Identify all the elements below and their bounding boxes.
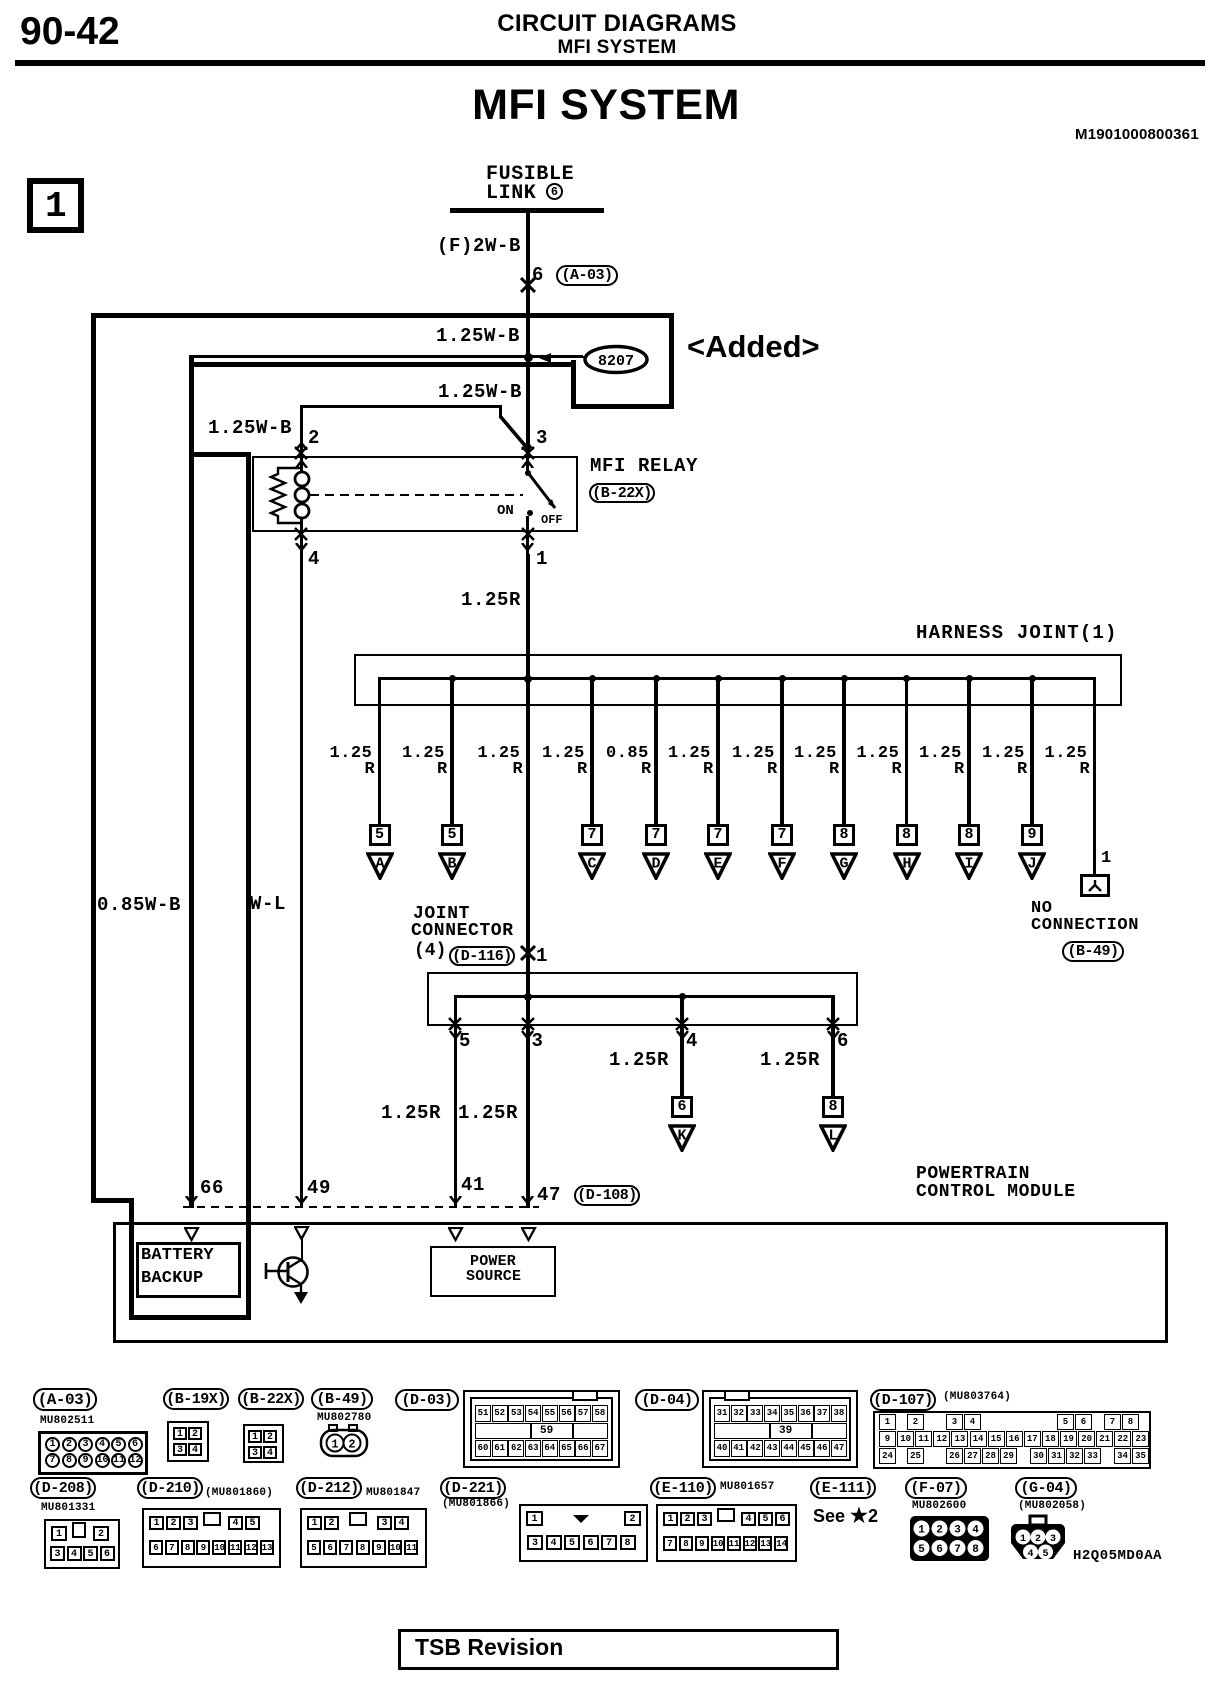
svg-text:F: F	[777, 855, 786, 872]
connector tag A-03 pinout	[33, 1388, 97, 1411]
terminal square 7 (D)	[645, 824, 667, 846]
added wire vertical along relay to PCM	[246, 452, 251, 1320]
wire label 1.25R pin47	[458, 1104, 518, 1124]
MFI relay box B-22X	[252, 456, 578, 532]
header subtitle MFI SYSTEM	[557, 38, 676, 58]
joint bus dot drop4	[679, 993, 686, 1000]
wire pin2 horizontal	[300, 405, 502, 408]
joint drop pin5 wire	[454, 995, 457, 1208]
harness joint bus bar	[378, 677, 1096, 680]
no connection pin 1 label	[1101, 850, 1112, 868]
svg-text:2: 2	[936, 1525, 943, 1537]
added wire branch horizontal	[189, 452, 251, 457]
connector G-04 drawing	[1006, 1514, 1070, 1564]
triangle terminal D	[642, 852, 670, 880]
pcm box	[113, 1222, 1168, 1343]
svg-text:1: 1	[1020, 1534, 1026, 1545]
wire pin 4 down to PCM pin 49	[300, 554, 304, 1206]
connector B-22X drawing	[243, 1424, 284, 1463]
joint connector bottom break pin 6	[826, 1017, 840, 1031]
connector D-107 drawing	[873, 1411, 1151, 1469]
relay coil	[300, 458, 303, 472]
terminal square 7 (F)	[771, 824, 793, 846]
joint drop pin6 wire	[831, 995, 834, 1096]
wire label (F)2W-B	[437, 237, 521, 257]
triangle terminal K	[668, 1124, 696, 1152]
connector tag D-107 pinout	[870, 1389, 936, 1411]
svg-text:5: 5	[1042, 1549, 1048, 1560]
triangle terminal C	[578, 852, 606, 880]
pin 47 arrow	[521, 1196, 534, 1204]
wire size label 1.25R at x1032	[982, 745, 1025, 763]
triangle terminal F	[768, 852, 796, 880]
wire size label 1.25R at x906	[857, 745, 900, 763]
pin 1 break mark	[526, 532, 529, 554]
junction node 8207 splice dot	[524, 353, 533, 362]
svg-text:E: E	[713, 855, 722, 872]
wire size label 1.25R at x452	[402, 745, 445, 763]
label JOINT CONNECTOR (4)	[413, 905, 470, 924]
pin 3 label	[536, 429, 548, 449]
wire size label 1.25R at x969	[919, 745, 962, 763]
wire size label 1.25R at x782	[732, 745, 775, 763]
triangle terminal I	[955, 852, 983, 880]
label H2Q05MD0AA	[1073, 1549, 1162, 1564]
terminal square 5 (B)	[441, 824, 463, 846]
joint connector bottom break pin 5	[448, 1017, 462, 1031]
label POWERTRAIN CONTROL MODULE	[916, 1165, 1030, 1184]
svg-text:5: 5	[918, 1544, 925, 1556]
connector tag E-111 pinout	[810, 1477, 876, 1499]
connector D-208 drawing	[44, 1519, 120, 1569]
pin 49 arrow	[295, 1196, 308, 1204]
connector tag A-03	[556, 265, 618, 286]
header title CIRCUIT DIAGRAMS	[497, 12, 736, 37]
label HARNESS JOINT(1)	[916, 624, 1118, 644]
connector tag D-212 pinout	[296, 1477, 362, 1499]
svg-text:C: C	[587, 855, 596, 872]
terminal square 8 (H)	[896, 824, 918, 846]
svg-text:G: G	[839, 855, 848, 872]
pin 2 break mark	[295, 442, 308, 450]
TSB Revision box	[398, 1629, 839, 1670]
connector tag D-221 pinout	[440, 1477, 506, 1499]
connector tag E-110 pinout	[650, 1477, 716, 1499]
wire thin splice line	[191, 355, 583, 358]
wire size label 1.25R at x844	[794, 745, 837, 763]
pin 66 arrow	[185, 1196, 198, 1204]
harness drop wire 9	[967, 677, 970, 824]
terminal square 8 (L)	[822, 1096, 844, 1118]
connector A-03 pinout drawing	[38, 1431, 148, 1475]
fusible link 6 label	[486, 165, 574, 186]
label MU802780	[317, 1413, 371, 1424]
joint connector box	[427, 972, 858, 1026]
harness drop wire 8	[905, 677, 908, 824]
label MU802058	[1018, 1501, 1086, 1512]
wire pin 1 inside relay	[526, 516, 529, 532]
wire size label 0.85R at x656	[606, 745, 649, 763]
joint connector bottom break pin 4	[675, 1017, 689, 1031]
svg-text:J: J	[1027, 855, 1036, 872]
pcm pin labels	[200, 1179, 224, 1199]
label MFI RELAY	[590, 457, 698, 477]
harness drop wire 10	[1030, 677, 1033, 824]
svg-text:A: A	[375, 855, 384, 872]
connector tag D-116	[449, 946, 515, 966]
arrow to splice from 8207 balloon	[538, 352, 552, 364]
power source box	[430, 1246, 556, 1297]
connector tag D-04 pinout	[635, 1389, 699, 1411]
svg-text:I: I	[964, 855, 973, 872]
terminal square 5 (A)	[369, 824, 391, 846]
connector tag G-04 pinout	[1015, 1477, 1077, 1499]
harness joint box	[354, 654, 1122, 706]
label MU801331	[41, 1503, 95, 1514]
connector D-221 drawing	[519, 1504, 648, 1562]
triangle terminal G	[830, 852, 858, 880]
connector D-03 drawing	[463, 1390, 620, 1468]
svg-text:3: 3	[954, 1525, 961, 1537]
relay switch contact from pin 3	[526, 458, 529, 472]
document number M1901000800361	[1075, 127, 1199, 143]
relay switch ON label	[497, 504, 514, 519]
joint drop pin4 wire	[680, 995, 683, 1096]
wire label 1.25R	[461, 591, 521, 611]
wire size label 1.25R at x592	[542, 745, 585, 763]
triangle terminal E	[704, 852, 732, 880]
no connection terminal	[1080, 874, 1110, 897]
terminal square 6 (K)	[671, 1096, 693, 1118]
battery backup box	[136, 1242, 241, 1298]
connector tag D-210 pinout	[137, 1477, 203, 1499]
pin 3 break mark	[521, 442, 534, 450]
connector E-110 drawing	[656, 1504, 797, 1562]
harness drop wire 2	[450, 677, 453, 824]
svg-text:2: 2	[1035, 1534, 1041, 1545]
connector B-19X drawing	[167, 1421, 209, 1462]
main title MFI SYSTEM	[472, 83, 740, 128]
svg-text:8207: 8207	[598, 353, 634, 370]
wire size label 1.25R at x1094	[1045, 745, 1088, 763]
main wire break at joint connector	[520, 945, 536, 961]
relay switch OFF label	[541, 514, 563, 526]
wire size label 1.25R at x718	[668, 745, 711, 763]
connector tag B-49 pinout	[311, 1388, 373, 1410]
svg-text:8: 8	[972, 1544, 979, 1556]
triangle terminal A	[366, 852, 394, 880]
svg-text:6: 6	[936, 1544, 943, 1556]
added wire left vertical to PCM pin 66	[189, 355, 194, 1208]
label Added	[687, 331, 820, 363]
pin 41 arrow	[449, 1196, 462, 1204]
balloon 8207	[582, 344, 650, 375]
wire (F)2W-B from fusible link	[526, 213, 531, 456]
label MU801847	[366, 1488, 420, 1499]
added wire horizontal through junction	[191, 362, 576, 367]
added wire jog horizontal	[91, 1198, 134, 1203]
connector tag F-07 pinout	[905, 1477, 967, 1499]
svg-text:1: 1	[918, 1525, 925, 1537]
svg-text:2: 2	[348, 1438, 355, 1452]
label NO CONNECTION	[1031, 900, 1053, 918]
wire label 1.25R drop4	[609, 1051, 669, 1071]
added wire short vertical	[571, 360, 576, 409]
wire label 1.25W-B left	[208, 419, 292, 439]
connector tag B-22X	[589, 483, 655, 503]
added wire lower right horizontal	[571, 404, 674, 409]
harness drop wire 6	[780, 677, 783, 824]
harness drop wire 4	[654, 677, 657, 824]
added wire outer left vertical	[91, 313, 96, 1203]
figure number 1 box	[27, 178, 84, 233]
joint connector bottom break pin 3	[521, 1017, 535, 1031]
added wire bottom horizontal under battery backup	[129, 1315, 251, 1320]
added wire thick right vertical	[669, 313, 674, 409]
wire diagonal into pin 3	[497, 414, 531, 452]
connector D-212 drawing	[300, 1508, 427, 1568]
connector tag B-49 no connection	[1062, 941, 1124, 962]
label See star 2	[813, 1506, 878, 1527]
svg-text:K: K	[677, 1127, 686, 1144]
harness drop wire 1	[378, 677, 381, 824]
svg-text:D: D	[651, 855, 660, 872]
relay dashed link	[310, 494, 523, 496]
transistor in pcm	[301, 1236, 304, 1262]
wire label 1.25W-B upper	[436, 327, 520, 347]
pin 1 label joint connector	[536, 947, 548, 967]
harness drop wire 3	[590, 677, 593, 824]
relay resistor parallel	[266, 466, 306, 526]
terminal square 8 (I)	[958, 824, 980, 846]
connector tag B-19X pinout	[163, 1388, 229, 1410]
wire label 1.25W-B middle	[438, 383, 522, 403]
joint bus dot main	[524, 993, 532, 1001]
pin 2 label	[308, 429, 320, 449]
wire label 1.25R drop6	[760, 1051, 820, 1071]
connector D-04 drawing	[702, 1390, 858, 1468]
harness drop wire 11	[1093, 677, 1096, 874]
joint connector bus bar	[455, 995, 834, 998]
wire pin2 vertical	[300, 405, 303, 456]
svg-text:1: 1	[331, 1438, 338, 1452]
header rule	[15, 60, 1205, 66]
svg-text:4: 4	[1027, 1549, 1033, 1560]
label MU802511	[40, 1416, 94, 1427]
label MU803764	[943, 1392, 1011, 1403]
label MU801860	[205, 1488, 273, 1499]
triangle terminal L	[819, 1124, 847, 1152]
label MU801657	[720, 1482, 774, 1493]
terminal square 9 (J)	[1021, 824, 1043, 846]
connector B-49 drawing	[319, 1424, 371, 1460]
terminal square 8 (G)	[833, 824, 855, 846]
triangle terminal J	[1018, 852, 1046, 880]
connector tag D-03 pinout	[395, 1389, 459, 1411]
relay switch blade	[526, 471, 560, 513]
triangle terminal B	[438, 852, 466, 880]
terminal square 7 (E)	[707, 824, 729, 846]
connector break 6 A-03	[520, 277, 536, 293]
connector F-07 drawing	[909, 1515, 991, 1563]
svg-text:4: 4	[972, 1525, 979, 1537]
pcm connector dashed line	[183, 1206, 539, 1208]
svg-text:L: L	[828, 1127, 837, 1144]
pin 4 break mark	[300, 532, 303, 554]
added wire vertical left of battery backup	[129, 1198, 134, 1320]
relay switch ON dot	[527, 510, 533, 516]
connector tag D-108	[574, 1185, 640, 1206]
wire label W-L	[250, 895, 286, 915]
bus junction dot main wire	[524, 675, 532, 683]
label MU801866	[442, 1499, 510, 1510]
page number 90-42	[20, 12, 120, 53]
wire main vertical to relay pin 3	[526, 355, 530, 456]
connector D-210 drawing	[142, 1508, 281, 1568]
triangle terminal H	[893, 852, 921, 880]
connector tag B-22X pinout	[238, 1388, 304, 1410]
terminal square 7 (C)	[581, 824, 603, 846]
wire jog vertical	[499, 405, 502, 418]
harness drop wire 5	[716, 677, 719, 824]
wire size label 1.25R at x379	[330, 745, 373, 763]
wire label 0.85W-B left	[97, 896, 181, 916]
wire pin 1 down main	[526, 554, 530, 1208]
svg-text:B: B	[447, 855, 456, 872]
added wire thick top horizontal	[91, 313, 674, 318]
connector tag D-208 pinout	[30, 1477, 96, 1499]
harness drop wire 7	[842, 677, 845, 824]
svg-text:7: 7	[954, 1544, 961, 1556]
wire size label 1.25R at x527	[478, 745, 521, 763]
svg-text:H: H	[902, 855, 911, 872]
svg-text:3: 3	[1050, 1534, 1056, 1545]
fusible link bar	[450, 208, 604, 213]
label MU802600	[912, 1501, 966, 1512]
wire label 1.25R pin41	[381, 1104, 441, 1124]
